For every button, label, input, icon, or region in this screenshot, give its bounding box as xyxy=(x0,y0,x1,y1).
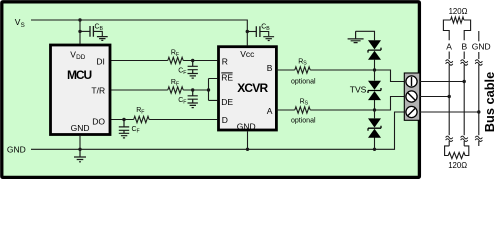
terminal block xyxy=(404,73,420,120)
wire CB1 to ground xyxy=(93,31,102,36)
wire 120ohm top left lead xyxy=(443,20,450,40)
ground CF1 xyxy=(188,74,198,79)
wire bus line GND xyxy=(478,52,480,146)
label CF2 xyxy=(178,97,186,105)
label RF3 xyxy=(136,107,144,115)
wire VS rail xyxy=(31,20,247,45)
wire bus row 2 xyxy=(420,96,449,98)
ground CF3 xyxy=(119,133,129,138)
svg-text:GND: GND xyxy=(71,123,90,133)
wire bus line A xyxy=(448,52,450,146)
TVS diode D3 xyxy=(368,118,381,137)
capacitor CF1 xyxy=(188,61,198,74)
wire A to RS2 xyxy=(276,109,294,111)
svg-text:A: A xyxy=(446,41,452,51)
svg-text:R: R xyxy=(222,56,228,66)
junction MCU GND xyxy=(78,148,81,151)
label CF1 xyxy=(178,68,186,76)
wire ground to TVS1 xyxy=(356,31,375,40)
resistor 120ohm top xyxy=(451,17,464,23)
label CF3 xyxy=(132,126,140,134)
svg-text:B: B xyxy=(267,63,273,73)
TVS diode D1 xyxy=(368,40,381,60)
svg-text:S: S xyxy=(21,22,25,29)
wire DO to CF3 xyxy=(110,119,134,121)
TVS diode D2 xyxy=(368,81,381,100)
wire RS2 to terminal 2 xyxy=(310,97,406,111)
svg-text:F: F xyxy=(141,109,144,115)
wire RF1 to R pin xyxy=(183,60,217,62)
ground below GND rail xyxy=(74,149,86,162)
label RF2 xyxy=(171,79,179,87)
junction CF2 tap xyxy=(191,88,194,91)
terminal screw 1 xyxy=(406,76,417,87)
junction XCVR GND xyxy=(246,148,249,151)
resistor RF3 xyxy=(134,116,149,122)
svg-text:GND: GND xyxy=(7,145,26,155)
svg-text:S: S xyxy=(303,61,307,67)
svg-text:F: F xyxy=(183,99,186,105)
capacitor CB2 xyxy=(256,26,260,37)
svg-text:Bus cable: Bus cable xyxy=(482,72,496,132)
wire CB2 to ground xyxy=(260,32,269,37)
junction CB1 tap xyxy=(78,30,81,33)
ground CB2 xyxy=(263,37,274,41)
svg-text:Vcc: Vcc xyxy=(240,49,255,59)
label RS2 xyxy=(300,98,309,106)
wire TVS2 to A node xyxy=(374,100,376,119)
wire B to RS1 xyxy=(276,69,294,71)
wire bus line GND stub top xyxy=(478,31,480,41)
svg-text:B: B xyxy=(462,41,468,51)
terminal screw 2 xyxy=(406,91,417,102)
svg-text:MCU: MCU xyxy=(67,68,91,82)
wire 120ohm top right lead xyxy=(464,20,471,40)
capacitor CF2 xyxy=(188,90,198,103)
svg-text:D: D xyxy=(222,115,228,125)
label CB2 xyxy=(261,24,270,32)
wire 120ohm bottom right lead xyxy=(464,146,469,156)
wire VDD drop xyxy=(79,20,81,44)
wire TVS1 to B node xyxy=(374,60,376,81)
wire bus row 3 xyxy=(420,111,479,113)
wire MCU GND drop xyxy=(79,136,81,149)
svg-text:GND: GND xyxy=(237,121,256,131)
label CB1 xyxy=(95,24,104,32)
svg-text:RE: RE xyxy=(221,72,233,82)
capacitor CF3 xyxy=(119,120,129,134)
svg-text:optional: optional xyxy=(291,117,316,124)
junction row1-B xyxy=(463,80,466,83)
svg-text:TVS: TVS xyxy=(350,85,367,95)
wire T/R to RF2 xyxy=(110,89,168,91)
terminal screw 3 xyxy=(406,106,417,117)
junction T/R bracket xyxy=(207,88,210,91)
svg-text:optional: optional xyxy=(291,78,316,85)
svg-text:120Ω: 120Ω xyxy=(448,161,467,170)
svg-text:DO: DO xyxy=(92,117,105,127)
svg-text:120Ω: 120Ω xyxy=(449,7,468,16)
wire TVS3 to GND rail xyxy=(374,138,376,150)
svg-text:F: F xyxy=(183,70,186,76)
wire bus line B xyxy=(463,52,465,146)
svg-text:T/R: T/R xyxy=(91,85,105,95)
MCU U1 xyxy=(51,45,111,135)
resistor 120ohm bottom xyxy=(448,152,465,158)
junction row3-GND xyxy=(477,110,480,113)
svg-text:DE: DE xyxy=(221,97,233,107)
wire Vcc CB2 branch xyxy=(247,31,256,33)
junction row2-A xyxy=(448,95,451,98)
ground TVS top xyxy=(348,31,364,42)
junction CF1 tap xyxy=(191,59,194,62)
ground CF2 xyxy=(188,103,198,108)
ground CB1 xyxy=(97,37,108,41)
wire 120ohm bottom left lead xyxy=(445,146,450,156)
wire RS1 to terminal 1 xyxy=(310,70,406,82)
svg-text:B: B xyxy=(266,26,270,32)
junction B-TVS xyxy=(373,68,376,71)
wire GND rail xyxy=(31,112,406,149)
resistor RF1 xyxy=(168,57,183,63)
svg-text:F: F xyxy=(176,81,179,87)
resistor RS1 xyxy=(295,67,310,73)
junction A-TVS xyxy=(373,108,376,111)
junction CB2 tap xyxy=(246,30,249,33)
transceiver XCVR xyxy=(219,47,277,132)
svg-text:F: F xyxy=(176,52,179,58)
svg-text:B: B xyxy=(100,26,104,32)
cable break marks xyxy=(446,60,483,142)
svg-text:XCVR: XCVR xyxy=(237,81,268,95)
wire bus row 1 xyxy=(420,81,464,83)
junction VS-VDD xyxy=(78,18,81,21)
wire RE/DE bracket xyxy=(209,79,218,101)
label RF1 xyxy=(171,50,179,58)
resistor RS2 xyxy=(295,107,310,113)
capacitor CB1 xyxy=(90,26,93,37)
net VS xyxy=(15,17,25,29)
junction CF3 tap xyxy=(122,118,125,121)
svg-text:S: S xyxy=(305,101,309,107)
label RS1 xyxy=(298,58,307,66)
svg-text:DD: DD xyxy=(76,54,86,61)
resistor RF2 xyxy=(168,87,183,93)
wire RF2 to bracket xyxy=(183,89,208,91)
wire DI to RF1 xyxy=(110,60,168,62)
svg-text:F: F xyxy=(137,128,140,134)
wire RF3 to D pin xyxy=(149,119,217,121)
svg-text:GND: GND xyxy=(472,41,491,51)
svg-text:DI: DI xyxy=(96,56,105,66)
junction TVS-GND rail xyxy=(373,148,376,151)
wire XCVR GND drop xyxy=(247,131,249,149)
svg-text:A: A xyxy=(267,106,273,116)
wire CB1 branch xyxy=(80,30,90,32)
